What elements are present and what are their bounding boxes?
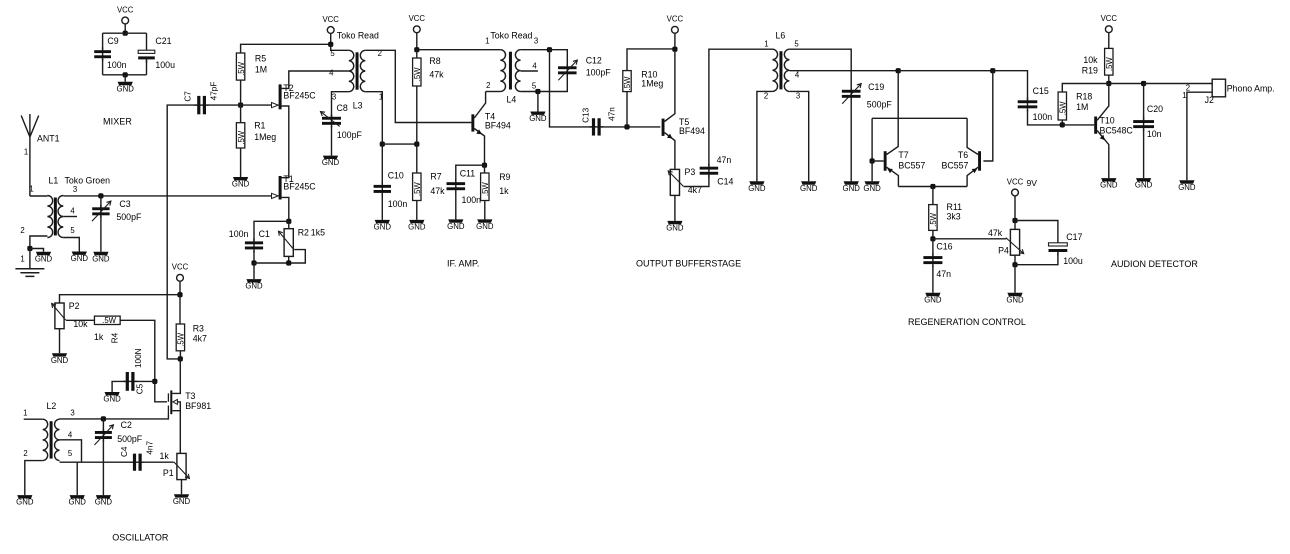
junction L1 pin2 / grounds <box>27 246 32 251</box>
capacitor C21 100u (electrolytic) <box>146 57 148 63</box>
transistor T7 BC557 (PNP) <box>884 151 887 171</box>
wire C4 to P1 wiper <box>142 461 173 463</box>
capacitor C9 100n <box>102 47 104 61</box>
transistor T2 BF245C (JFET) <box>279 84 282 109</box>
svg-text:C12: C12 <box>586 55 602 65</box>
svg-text:R3: R3 <box>193 323 204 333</box>
svg-text:47k: 47k <box>430 186 445 196</box>
svg-text:100pF: 100pF <box>586 68 612 78</box>
wire L2 pin 5 to C4 <box>60 461 133 463</box>
svg-text:R2: R2 <box>298 228 309 238</box>
ground (C5) <box>105 392 120 395</box>
ground (C1/R2) <box>246 279 261 282</box>
svg-text:4: 4 <box>795 70 800 79</box>
wire C13 to T5 base <box>601 126 660 128</box>
svg-text:1k: 1k <box>160 451 170 461</box>
wire C3 to ground <box>100 216 102 252</box>
junction VCC/C9/C21 top <box>123 31 128 36</box>
svg-text:GND: GND <box>16 498 34 507</box>
resistor R8 47k <box>413 58 421 86</box>
svg-text:47n: 47n <box>717 155 732 165</box>
svg-text:3: 3 <box>332 93 336 102</box>
svg-text:100pF: 100pF <box>337 130 363 140</box>
ground (C2) <box>96 495 111 498</box>
ground (P2) <box>52 353 67 356</box>
T4 emitter <box>474 129 484 166</box>
transformer L4 Toko Read <box>500 50 505 92</box>
wire L1 pin 4 stub <box>63 216 77 218</box>
junction L4 pin3/C13 <box>547 47 552 52</box>
svg-text:T3: T3 <box>185 391 195 401</box>
wire VCC junction to R3 <box>179 295 181 324</box>
VCC supply 9V <box>1012 189 1019 196</box>
svg-text:GND: GND <box>924 295 942 304</box>
polarized capacitor C17 100u <box>1057 250 1059 256</box>
T6 emitter <box>967 167 978 186</box>
svg-text:9V: 9V <box>1027 178 1038 188</box>
ground (L2 pin 2) <box>17 495 32 498</box>
wire T5 collector <box>665 49 675 121</box>
ground (T7 base) <box>865 181 880 184</box>
junction C20 <box>1141 81 1146 86</box>
wire R1 to ground <box>240 148 242 177</box>
junction L3 pin1/C10 <box>380 142 385 147</box>
wire C1 to lower node <box>253 251 255 263</box>
ground (T10 emitter) <box>1101 178 1116 181</box>
svg-text:1k: 1k <box>499 186 509 196</box>
svg-text:.5W: .5W <box>623 76 632 91</box>
svg-text:1: 1 <box>20 255 24 264</box>
trimmer resistor R2 1k5 <box>284 229 293 257</box>
wire P4 bottom <box>1014 255 1016 265</box>
junction C13/R10/T5 base <box>624 124 629 129</box>
capacitor C1 100n <box>253 238 255 252</box>
wire R19 to node <box>1108 75 1110 83</box>
wire P2 to ground <box>59 329 61 354</box>
svg-text:C2: C2 <box>121 420 132 430</box>
svg-text:1: 1 <box>24 148 28 157</box>
svg-text:4: 4 <box>70 207 75 216</box>
svg-text:J2: J2 <box>1205 95 1214 105</box>
svg-text:BF494: BF494 <box>679 126 705 136</box>
junction C1/R2 bottom <box>251 260 256 265</box>
ground (L6 pin 2) <box>749 181 764 184</box>
svg-text:GND: GND <box>117 84 135 93</box>
wire VCC to R8 <box>416 50 418 58</box>
svg-text:GND: GND <box>322 158 340 167</box>
svg-text:IF. AMP.: IF. AMP. <box>447 259 479 269</box>
svg-text:C19: C19 <box>868 82 884 92</box>
wire to T6 base node <box>898 70 993 72</box>
svg-text:500pF: 500pF <box>117 434 143 444</box>
capacitor C16 47n <box>932 253 934 267</box>
transistor T10 BC548C (NPN) <box>1094 117 1097 134</box>
wire T6 collector to rail <box>967 118 978 154</box>
ground (C3) <box>93 252 108 255</box>
wire L2 pin 2 to ground <box>25 461 43 496</box>
svg-text:OSCILLATOR: OSCILLATOR <box>112 532 169 542</box>
svg-text:100n: 100n <box>388 199 408 209</box>
wire C5 left to ground <box>112 381 126 392</box>
wire to C21 top <box>146 33 148 51</box>
svg-text:47k: 47k <box>429 70 444 80</box>
svg-text:VCC: VCC <box>322 15 339 24</box>
svg-text:C10: C10 <box>388 171 404 181</box>
svg-text:P3: P3 <box>685 167 696 177</box>
transistor T1 BF245C (JFET) <box>279 176 282 200</box>
T3 source <box>172 411 180 454</box>
svg-text:GND: GND <box>51 356 69 365</box>
T10 emitter <box>1097 131 1109 179</box>
junction (T4 emitter node) <box>482 163 487 168</box>
wire L1 pin 5 to ground <box>63 238 79 252</box>
wire emitter node to C11 <box>456 165 485 182</box>
capacitor C15 100n <box>1027 97 1029 111</box>
svg-text:.5W: .5W <box>413 182 422 197</box>
svg-text:BC557: BC557 <box>898 161 925 171</box>
svg-text:4: 4 <box>532 62 537 71</box>
potentiometer P4 47k <box>1010 229 1019 255</box>
svg-text:ANT1: ANT1 <box>37 134 60 144</box>
wire C21 bottom <box>146 60 148 75</box>
svg-text:L6: L6 <box>776 31 786 41</box>
wire node to R1 <box>240 105 242 123</box>
svg-text:.5W: .5W <box>177 332 186 347</box>
ground (C20) <box>1136 178 1151 181</box>
ground (C19) <box>844 181 859 184</box>
wire antenna to L1 pin 1 <box>30 195 48 197</box>
svg-text:T10: T10 <box>1100 116 1115 126</box>
svg-text:3k3: 3k3 <box>947 211 961 221</box>
wire T6 base up <box>983 71 992 161</box>
T7 emitter <box>887 167 899 186</box>
wire R3 to drain node <box>179 351 181 359</box>
transistor T3 BF981 (dual-gate MOSFET) <box>170 390 172 414</box>
ground (C10) <box>375 220 390 223</box>
ground (L6 pin 3) <box>801 181 816 184</box>
junction C2 <box>101 416 106 421</box>
svg-text:1: 1 <box>23 409 27 418</box>
VCC supply mixer <box>122 17 129 24</box>
svg-text:GND: GND <box>863 184 881 193</box>
svg-text:C17: C17 <box>1066 232 1082 242</box>
svg-text:3: 3 <box>534 36 538 45</box>
variable capacitor C3 500pF <box>100 205 102 218</box>
wire VCC rail to P2 <box>60 295 181 303</box>
VCC supply IF <box>413 26 420 33</box>
wire junction to chassis ground symbol <box>29 249 31 269</box>
wire to C20 <box>1143 84 1145 120</box>
svg-text:GND: GND <box>95 498 113 507</box>
wire L3 pin 1 down <box>365 92 382 144</box>
capacitor C7 47pF <box>195 104 209 106</box>
svg-text:L1: L1 <box>49 176 59 186</box>
ground (L4 pin 5) <box>530 112 545 115</box>
svg-text:3: 3 <box>796 92 800 101</box>
svg-text:2: 2 <box>23 449 27 458</box>
svg-text:GND: GND <box>1135 181 1153 190</box>
wire regeneration wiper <box>933 238 1006 240</box>
svg-text:GND: GND <box>529 114 547 123</box>
svg-text:VCC: VCC <box>172 263 189 272</box>
svg-text:GND: GND <box>800 184 818 193</box>
wire C19 to ground <box>850 99 852 181</box>
svg-text:OUTPUT BUFFERSTAGE: OUTPUT BUFFERSTAGE <box>636 259 741 269</box>
wire C14 to L6 pin 1 <box>709 49 773 166</box>
svg-text:3: 3 <box>73 185 77 194</box>
svg-text:1: 1 <box>29 185 33 194</box>
wire C10 to ground <box>381 194 383 220</box>
wire L4 pin3 node down to C13 <box>550 50 592 127</box>
svg-text:GND: GND <box>69 498 87 507</box>
wire R10 top to VCC junction <box>627 49 675 71</box>
wire T4 collector <box>474 92 485 119</box>
wire L6 pin 3 to ground <box>789 91 808 181</box>
svg-text:1: 1 <box>1182 91 1186 100</box>
svg-text:500pF: 500pF <box>116 212 142 222</box>
svg-text:P4: P4 <box>998 245 1009 255</box>
wire T2 drain to L3 pin 4 <box>282 71 349 88</box>
junction R19/T10 collector <box>1106 81 1111 86</box>
ground (R9) <box>477 219 492 222</box>
wire L6 pin 4 to regeneration node <box>789 70 898 72</box>
variable capacitor C19 500pF <box>850 87 852 100</box>
wire C9-C21 top <box>103 32 147 34</box>
svg-text:GND: GND <box>245 282 263 291</box>
wire T7 collector to L6 pin4 node <box>887 71 899 155</box>
wire junction to GND symbol <box>30 249 44 252</box>
junction VCC/rail <box>177 292 182 297</box>
svg-text:100u: 100u <box>155 60 175 70</box>
transformer L3 Toko Read <box>349 50 354 91</box>
wire pin5 to ground <box>537 92 539 112</box>
svg-text:R5: R5 <box>255 54 266 64</box>
wire L2 pin 1 stub <box>24 418 43 420</box>
wire to ground <box>124 75 126 82</box>
capacitor C14 47n <box>708 164 710 178</box>
wire P2 wiper to R4 <box>66 319 94 321</box>
svg-text:C21: C21 <box>155 36 171 46</box>
wire to C15 <box>993 71 1028 100</box>
capacitor C10 100n <box>381 182 383 196</box>
ground (L2 pins 4/5) <box>70 495 85 498</box>
svg-text:.5W: .5W <box>413 67 422 82</box>
wire L3 pin 2 to T4 base <box>365 50 471 122</box>
svg-text:MIXER: MIXER <box>103 117 132 127</box>
svg-text:5: 5 <box>330 49 335 58</box>
VCC supply detector <box>1105 26 1112 33</box>
wire C2 to ground <box>102 440 104 495</box>
junction R11/C16/P4 wiper <box>930 236 935 241</box>
potentiometer P3 4k7 <box>670 169 679 195</box>
resistor R10 1Meg <box>623 71 631 92</box>
resistor R7 47k <box>413 173 421 201</box>
svg-text:1Meg: 1Meg <box>254 132 276 142</box>
wire to ground <box>871 161 873 181</box>
svg-text:C14: C14 <box>717 177 733 187</box>
svg-text:L3: L3 <box>353 100 363 110</box>
transformer L1 Toko Groen <box>47 196 52 238</box>
junction R3/T3 drain/C7 <box>178 356 183 361</box>
svg-text:47n: 47n <box>607 107 616 121</box>
wire T7 base <box>872 160 884 162</box>
svg-text:REGENERATION CONTROL: REGENERATION CONTROL <box>908 317 1026 327</box>
earth ground symbol <box>15 269 44 277</box>
T3 drain <box>172 359 180 394</box>
svg-text:C20: C20 <box>1147 104 1163 114</box>
wire L2 pin 3 to T3 gate 2 <box>60 415 169 419</box>
svg-text:R18: R18 <box>1076 92 1092 102</box>
resistor R11 3k3 <box>929 205 937 231</box>
svg-text:.5W: .5W <box>102 316 117 325</box>
svg-text:GND: GND <box>447 222 465 231</box>
svg-text:C5: C5 <box>136 383 145 394</box>
wire L3 pin 3 to C8 <box>332 92 349 118</box>
junction C3 tap <box>98 193 103 198</box>
svg-text:R8: R8 <box>429 56 440 66</box>
svg-text:GND: GND <box>103 395 121 404</box>
junction VCC/R10/T5 collector <box>672 47 677 52</box>
wire emitter rail <box>898 186 967 188</box>
svg-text:Toko Groen: Toko Groen <box>65 176 111 186</box>
trimmer R2 1k5 <box>288 221 290 228</box>
svg-text:100n: 100n <box>229 229 249 239</box>
variable capacitor C8 100pF <box>331 114 333 127</box>
wire R5 to gate node <box>240 80 242 105</box>
svg-text:AUDION DETECTOR: AUDION DETECTOR <box>1111 259 1198 269</box>
svg-text:GND: GND <box>71 254 89 263</box>
transformer L2 <box>43 419 48 460</box>
svg-text:BC548C: BC548C <box>1100 126 1134 136</box>
svg-text:GND: GND <box>374 223 392 232</box>
svg-text:10k: 10k <box>1083 55 1098 65</box>
wire to C3 <box>100 196 102 209</box>
junction VCC/P4/C17 <box>1012 218 1017 223</box>
resistor R9 1k <box>481 173 489 201</box>
svg-text:5: 5 <box>532 82 537 91</box>
capacitor C5 100N <box>123 380 137 382</box>
ground (P3) <box>667 221 682 224</box>
wire to ground (L2 secondary) <box>76 462 78 495</box>
svg-text:5: 5 <box>794 40 799 49</box>
wire to ground <box>253 263 255 279</box>
connector J2 Phono Amp. <box>1212 79 1225 97</box>
svg-text:C9: C9 <box>107 36 118 46</box>
resistor R3 4k7 <box>176 324 184 351</box>
svg-text:VCC: VCC <box>1101 14 1118 23</box>
svg-text:GND: GND <box>173 497 191 506</box>
svg-text:47k: 47k <box>988 228 1003 238</box>
svg-text:GND: GND <box>748 184 766 193</box>
wire C16 to ground <box>932 266 934 293</box>
antenna ANT1 <box>21 114 39 196</box>
wire L6 pin 5 to C19 <box>789 49 851 91</box>
wire rail left to T7 base junction <box>871 118 873 161</box>
junction T1 source / R2 / C1 <box>286 219 291 224</box>
wire T7/T6 cross-coupling top rail <box>872 117 967 119</box>
wire node to C16 <box>932 239 934 256</box>
wire emitter node to R9 <box>484 165 486 173</box>
junction emitters/R11 <box>930 184 935 189</box>
svg-text:.5W: .5W <box>1105 57 1114 72</box>
wire C17 loop <box>1015 221 1058 244</box>
resistor R1 1Meg <box>236 123 244 148</box>
wire P3 wiper to C14 <box>684 175 709 187</box>
svg-text:R9: R9 <box>499 172 510 182</box>
svg-text:C13: C13 <box>581 107 590 122</box>
svg-text:1k: 1k <box>94 332 104 342</box>
junction VCC/R8/L4 <box>414 47 419 52</box>
svg-text:5: 5 <box>68 449 73 458</box>
svg-text:GND: GND <box>1100 181 1118 190</box>
wire R2 wiper loop <box>254 250 305 263</box>
wire L4 pin 3 to C12 loop <box>521 49 550 51</box>
svg-text:R1: R1 <box>254 121 265 131</box>
svg-text:R7: R7 <box>430 171 441 181</box>
svg-text:BF981: BF981 <box>185 401 211 411</box>
wire VCC to L3 pin 5 <box>331 44 349 50</box>
ground (P4) <box>1007 293 1022 296</box>
svg-text:C3: C3 <box>119 199 130 209</box>
wire C9-C21 bottom <box>103 74 147 76</box>
junction R18/C15/T10 base <box>1060 122 1065 127</box>
junction T7 base/ground <box>870 158 875 163</box>
wire L6 pin 2 to ground <box>757 91 773 181</box>
svg-text:4n7: 4n7 <box>146 441 155 455</box>
svg-text:100N: 100N <box>134 348 143 368</box>
wire T2 source to T1 drain <box>282 106 289 178</box>
svg-text:GND: GND <box>1178 183 1196 192</box>
wire P3 to ground <box>674 195 676 221</box>
svg-text:Toko Read: Toko Read <box>490 30 532 40</box>
ground (P1) <box>174 494 189 497</box>
wire VCC rail to R5 <box>241 44 331 53</box>
T5 emitter <box>665 133 675 169</box>
svg-text:GND: GND <box>35 254 53 263</box>
junction bottom <box>123 72 128 77</box>
ground (R7) <box>409 220 424 223</box>
svg-text:T6: T6 <box>958 150 968 160</box>
wire C10 <box>381 144 383 184</box>
potentiometer P2 10k <box>55 303 64 329</box>
transistor T6 BC557 (PNP) <box>978 151 981 171</box>
wire C8 to ground <box>331 126 333 156</box>
svg-text:2: 2 <box>486 81 490 90</box>
wire C15 to detector base node <box>1028 110 1062 125</box>
wire L1 pin 2 <box>30 236 48 249</box>
junction R2 bottom <box>286 260 291 265</box>
svg-text:4: 4 <box>329 69 334 78</box>
capacitor C11 100n <box>455 179 457 193</box>
svg-text:L4: L4 <box>507 94 517 104</box>
resistor R5 1M <box>236 53 244 80</box>
resistor R19 10k <box>1105 48 1113 75</box>
resistor R18 1M <box>1058 92 1066 120</box>
svg-text:C11: C11 <box>460 168 476 178</box>
ground (L1 pin 5) <box>72 252 87 255</box>
wire L4 pin 4 stub <box>521 70 538 72</box>
ground (J2 pin 1) <box>1179 180 1194 183</box>
junction VCC/L3 rail <box>328 42 333 47</box>
capacitor C13 47n <box>589 126 603 128</box>
svg-text:Phono Amp.: Phono Amp. <box>1227 83 1275 93</box>
wire R11 to node <box>932 230 934 238</box>
resistor R4 1k <box>94 316 120 324</box>
svg-text:100n: 100n <box>462 195 482 205</box>
svg-text:BF245C: BF245C <box>283 90 316 100</box>
junction C5/gate1 <box>152 379 157 384</box>
svg-text:GND: GND <box>1006 295 1024 304</box>
